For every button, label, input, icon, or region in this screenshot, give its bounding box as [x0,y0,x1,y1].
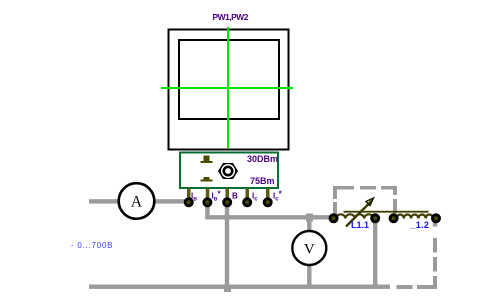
terminal Iс* ring [264,199,271,206]
wire: stub under L1.2 right terminal [433,219,437,227]
terminal L1.1 right ring [372,215,379,222]
inductor L1.1 variable arrow [346,198,374,227]
inductor L1.1 winding [336,214,374,218]
svg-text:PW1,PW2: PW1,PW2 [213,12,249,22]
wire: terminal B down to bottom bus [225,204,229,289]
wire (dashed): L1.2 right terminal down to bottom bus [397,238,438,289]
terminal Iв* ring [204,199,211,206]
terminal L1.2 left ring [390,215,397,222]
wire: L1.1 right terminal down to bottom bus [373,219,377,287]
node: junction at voltmeter tap [306,214,313,222]
oscilloscope screen [179,40,279,119]
wire: ammeter to terminal Iв [154,199,188,203]
svg-text:A: A [131,194,143,211]
svg-text:Iс*: Iс* [273,190,283,203]
ammeter A body [119,183,155,219]
terminal B leg [226,188,230,204]
terminal Iв ring [185,199,192,206]
power meter box [180,153,278,189]
wire (dashed): L1.1 left terminal up over to L1.2 left terminal [333,186,397,215]
button icon pressed (top) [201,156,213,164]
node: junction on bottom bus [224,286,231,292]
terminal B ring [224,199,231,206]
svg-text:Iс: Iс [252,192,258,203]
button icon released (bottom) [201,177,213,182]
transformer core line [344,211,429,213]
svg-text:30DBm: 30DBm [247,154,278,164]
svg-text:L1.1: L1.1 [351,220,369,230]
terminal Iс* leg [266,188,270,204]
green horizontal trace line [161,87,293,89]
voltmeter V body [292,231,326,265]
terminal Iс leg [246,188,250,204]
green vertical trace line [227,27,229,148]
svg-text:V: V [304,242,315,258]
svg-text:_1.2: _1.2 [410,220,430,230]
wire: junction down to voltmeter [307,217,311,232]
oscilloscope PW1,PW2 outer case [169,30,289,150]
nut icon [218,163,238,179]
terminal Iв leg [187,188,191,204]
terminal Iв* leg [206,188,210,204]
svg-text:В: В [232,192,238,201]
terminal L1.1 left ring [330,215,337,222]
wire: terminal Iв* down and right to L1.1 [205,204,332,220]
svg-text:Iв*: Iв* [212,190,222,203]
terminal L1.2 right ring [433,215,440,222]
svg-text:75Bm: 75Bm [250,176,275,186]
inductor L1.2 winding [397,215,433,219]
wire: source left lead to ammeter [89,199,118,203]
wire: bottom bus [89,285,390,289]
wire: voltmeter bottom to bottom bus [307,264,311,287]
svg-text:- 0...700В: - 0...700В [71,241,113,250]
terminal Iс ring [244,199,251,206]
